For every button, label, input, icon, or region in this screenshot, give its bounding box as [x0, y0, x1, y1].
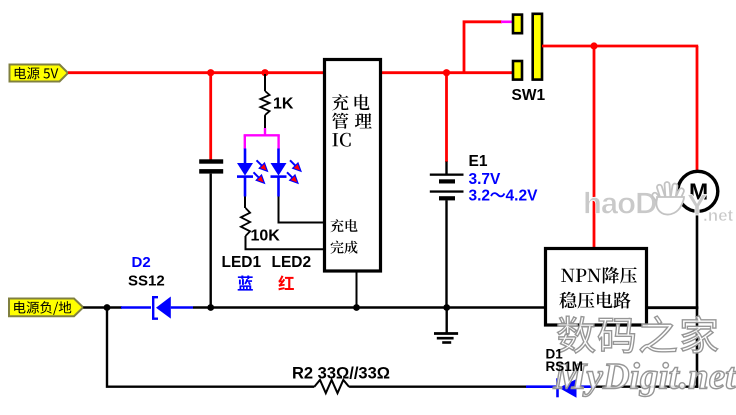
wire D1 cathode lead (blue) — [577, 385, 596, 388]
wire D2 anode lead (blue) — [121, 306, 151, 309]
pin label 完成 (done) — [330, 241, 357, 254]
wire left drop to bottom bus — [107, 308, 314, 387]
svg-text:3.7V: 3.7V — [469, 171, 502, 188]
wire battery top (black) — [445, 162, 447, 175]
watermark 数码之家 — [558, 316, 718, 353]
junction dot capacitor top — [207, 69, 214, 76]
wire motor bottom (black) — [696, 212, 699, 388]
label 蓝 (blue) — [238, 275, 253, 290]
wire bottom bus right — [595, 386, 698, 388]
wire D2 cathode lead (blue) — [171, 306, 193, 309]
wire R1 top — [264, 74, 266, 91]
svg-text:RS1M: RS1M — [546, 359, 584, 374]
wire motor top (red) — [696, 46, 699, 171]
wire 5V bus right segment — [380, 71, 513, 74]
svg-text:10K: 10K — [251, 228, 281, 245]
wire IC bottom pin to ground bus — [356, 271, 358, 308]
IC title 充电 — [332, 94, 369, 110]
svg-text:D2: D2 — [132, 254, 151, 271]
wire ground bus (label to D2) — [83, 306, 122, 308]
wire capacitor top (red) — [209, 73, 212, 160]
junction dot IC ground — [353, 304, 360, 311]
svg-text:E1: E1 — [469, 153, 488, 170]
wire NPN box right to motor drop — [647, 306, 699, 309]
LED LED1 (blue) — [237, 149, 253, 197]
wire SW1 output to motor (red) — [542, 45, 698, 48]
IC title IC — [332, 133, 350, 147]
NPN box title line2 稳压电路 — [559, 292, 630, 309]
pin label 充电 (charging) — [330, 219, 357, 232]
junction dot capacitor bottom — [207, 304, 214, 311]
svg-text:LED1: LED1 — [222, 254, 262, 271]
op-amp/IC U1 charging management IC box — [325, 60, 381, 272]
diode D1 RS1M — [558, 378, 577, 397]
LED light arrows LED1 — [254, 160, 268, 183]
wire SW1 upper contact (magenta) — [501, 20, 513, 23]
svg-text:SS12: SS12 — [128, 273, 165, 290]
wire LED2 cathode to IC pin 充电 — [279, 197, 325, 223]
ground symbol — [434, 308, 458, 343]
junction dot battery branch — [443, 69, 450, 76]
svg-text:.net: .net — [703, 206, 734, 225]
wire ground bus middle — [193, 306, 698, 308]
junction dot NPN branch — [590, 42, 597, 49]
wire D1 anode lead (blue) — [526, 385, 557, 388]
resistor R2 33ohm//33ohm — [314, 380, 349, 393]
label 红 (red) — [278, 275, 294, 290]
junction dot battery bottom — [443, 304, 450, 311]
diode D2 SS12 — [153, 296, 171, 320]
svg-text:haoD: haoD — [583, 186, 657, 221]
wire R1 bottom — [264, 115, 266, 129]
svg-text:LED2: LED2 — [272, 254, 312, 271]
wire magenta node (R1 to LEDs) — [244, 128, 280, 149]
resistor R1 1K — [260, 91, 269, 115]
block NPN buck regulator box — [546, 249, 647, 326]
wire bottom bus middle — [349, 386, 527, 388]
LED LED2 (red) — [271, 149, 287, 197]
wire battery bottom to ground bus — [445, 200, 447, 307]
svg-text:1K: 1K — [273, 96, 294, 113]
svg-text:3.2～4.2V: 3.2～4.2V — [469, 188, 539, 205]
wire battery top (red) — [445, 73, 448, 162]
junction dot resistor R 1K top — [261, 69, 268, 76]
capacitor C1 — [199, 159, 223, 173]
NPN box title line1 NPN降压 — [561, 267, 637, 284]
svg-text:R2 33Ω//33Ω: R2 33Ω//33Ω — [292, 365, 390, 383]
watermark haoDV.net — [583, 182, 734, 225]
junction dot ground-left — [104, 304, 111, 311]
svg-text:SW1: SW1 — [512, 87, 546, 104]
net label 电源负/地 — [9, 299, 83, 317]
motor M — [678, 171, 718, 211]
wire LED1 cathode to R 10K — [244, 197, 246, 209]
wire NPN box top (red) — [593, 46, 596, 249]
battery E1 — [430, 174, 464, 201]
wire 5V bus left segment — [68, 71, 325, 74]
IC title 管理 — [332, 113, 372, 129]
wire SW1 upper branch (red) — [464, 22, 502, 73]
LED light arrows LED2 — [287, 160, 301, 183]
wire capacitor bottom to ground bus — [209, 174, 211, 308]
net label 电源 5V — [10, 65, 69, 82]
resistor R 10K — [241, 208, 250, 236]
wire 10K to IC pin 完成 — [246, 236, 325, 249]
switch SW1 — [513, 14, 542, 80]
